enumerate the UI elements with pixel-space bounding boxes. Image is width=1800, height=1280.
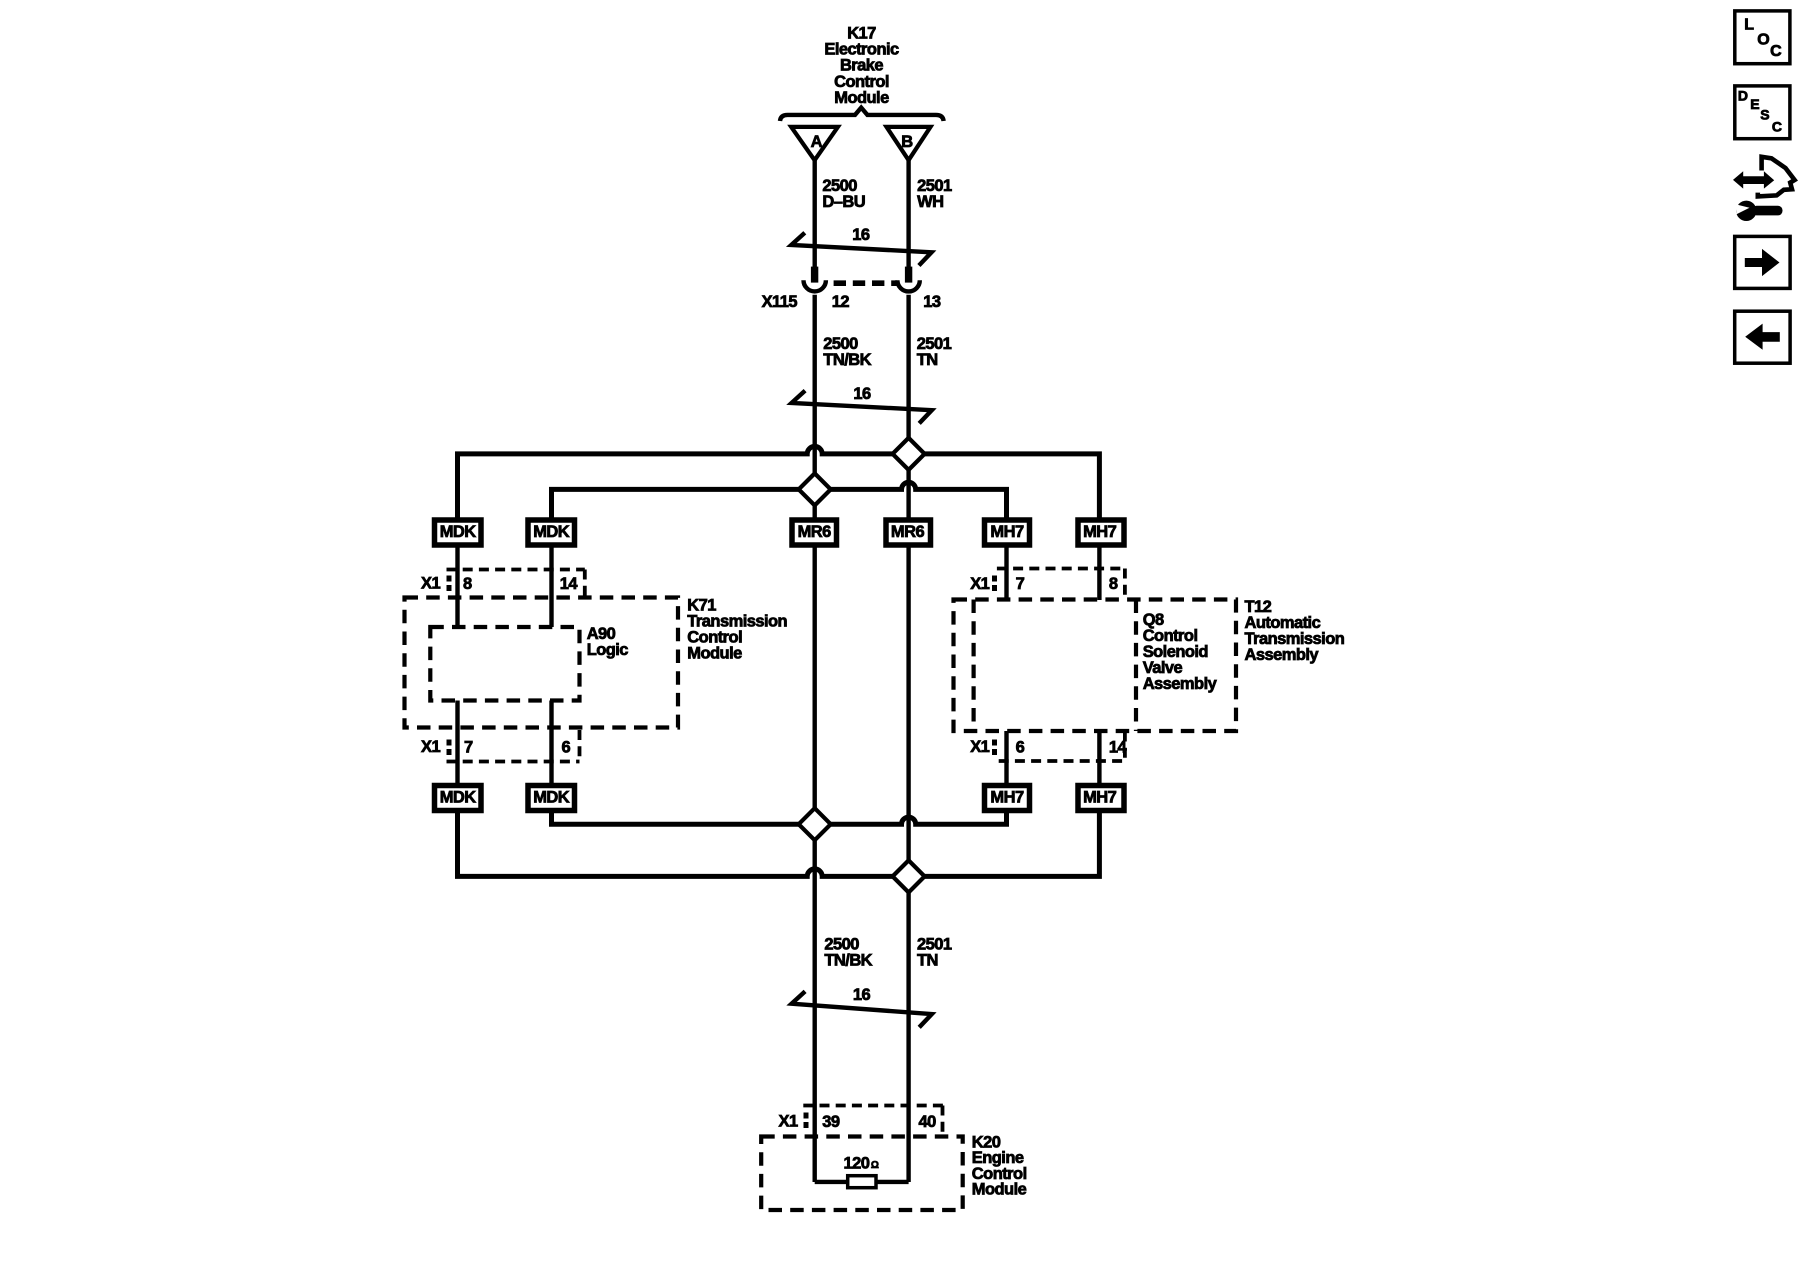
wire Q8 to pin 6 MH7 — [1004, 731, 1008, 783]
svg-text:120: 120 — [844, 1154, 870, 1172]
svg-text:E: E — [1750, 96, 1759, 112]
svg-text:MDK: MDK — [440, 788, 477, 806]
splice pack MDK (bottom left) — [435, 786, 482, 811]
label X1 pin 6 pin 14 (T12 bottom) — [970, 738, 1127, 757]
svg-text:Module: Module — [687, 644, 742, 662]
svg-text:X1: X1 — [421, 738, 440, 756]
outer bottom bus wire (2501 branch) with hop over wire 2500 — [458, 811, 1100, 876]
svg-text:A: A — [811, 133, 823, 151]
module box T12 Automatic Transmission Assembly (dashed) — [954, 600, 1237, 732]
svg-text:TN/BK: TN/BK — [824, 951, 872, 969]
splice pack MDK (top left) — [435, 520, 482, 545]
svg-text:O: O — [1757, 31, 1769, 48]
label X1 pin 39 pin 40 (K20) — [779, 1112, 937, 1131]
resistor 120 ohm — [844, 1154, 879, 1187]
inner bottom bus wire (2500 branch) with hop over wire 2501 — [552, 811, 1007, 824]
svg-text:6: 6 — [1016, 739, 1025, 757]
label wire 2500 TN/BK (lower) — [824, 935, 872, 969]
brace for K17 module — [780, 108, 944, 121]
label wire 2500 TN/BK (upper) — [823, 335, 871, 369]
connector X1 strip (K71 top) — [447, 570, 585, 598]
svg-text:8: 8 — [463, 575, 472, 593]
svg-text:Assembly: Assembly — [1245, 646, 1320, 664]
twisted pair symbol 16 (lower) — [792, 986, 932, 1028]
svg-text:TN/BK: TN/BK — [823, 351, 871, 369]
icon back arrow box — [1735, 311, 1790, 363]
wire pin 8 MH7 into Q8 — [1097, 545, 1101, 600]
connector X1 strip (T12 top) — [995, 569, 1125, 600]
icon forward arrow box — [1735, 236, 1790, 288]
svg-text:Logic: Logic — [587, 641, 629, 659]
svg-text:WH: WH — [917, 193, 943, 211]
svg-text:D–BU: D–BU — [822, 193, 865, 211]
svg-text:Module: Module — [834, 89, 889, 107]
label X1 pin 7 pin 6 (K71 bottom) — [421, 738, 571, 757]
svg-text:X1: X1 — [970, 575, 989, 593]
label wire 2500 D-BU — [822, 177, 865, 211]
svg-text:40: 40 — [919, 1113, 937, 1131]
svg-text:7: 7 — [1016, 575, 1025, 593]
svg-text:X115: X115 — [762, 293, 798, 311]
svg-text:14: 14 — [1109, 739, 1128, 757]
svg-text:MR6: MR6 — [798, 523, 832, 541]
icon wiring arrows and wrench — [1733, 157, 1795, 221]
wire 2500 from pin A to X115 — [813, 158, 817, 268]
connector triangle B — [887, 127, 931, 160]
svg-text:12: 12 — [832, 293, 850, 311]
svg-text:C: C — [1770, 43, 1782, 60]
svg-text:X1: X1 — [970, 738, 989, 756]
connector X115 body dashed line — [834, 280, 897, 286]
label wire 2501 WH — [917, 177, 952, 211]
wire Q8 to pin 14 MH7 — [1097, 731, 1101, 783]
svg-text:MH7: MH7 — [990, 523, 1024, 541]
icon DESC box — [1735, 86, 1790, 139]
icon LOC box — [1735, 11, 1790, 64]
label A90 Logic — [587, 625, 629, 659]
junction diamond on wire 2500 at inner bottom bus — [799, 808, 831, 840]
connector triangle A — [791, 127, 838, 160]
junction diamond on wire 2501 at top bus — [893, 438, 925, 470]
twisted pair symbol 16 (upper) — [791, 226, 931, 266]
label wire 2501 TN (upper) — [917, 335, 952, 369]
svg-text:7: 7 — [464, 739, 473, 757]
junction diamond on wire 2500 at second bus — [799, 473, 831, 505]
label wire 2501 TN (lower) — [917, 935, 952, 969]
svg-text:39: 39 — [822, 1113, 840, 1131]
module box K71 Transmission Control Module (dashed) — [405, 598, 679, 728]
junction diamond on wire 2501 at outer bottom bus — [893, 860, 925, 892]
connector X115 pin 13 terminal — [897, 267, 919, 292]
wire 2501 from pin B to X115 — [906, 158, 910, 268]
component box Q8 Control Solenoid Valve Assembly (dashed verticals) — [974, 600, 1136, 732]
label Q8 Control Solenoid Valve Assembly — [1143, 611, 1218, 693]
in-line connector MH7 (bottom right of T12) — [1078, 786, 1124, 811]
svg-text:13: 13 — [923, 293, 941, 311]
label X115 and pins 12 13 — [762, 293, 941, 311]
wire from MDK pin 14 into A90 — [549, 545, 553, 627]
svg-text:L: L — [1744, 17, 1754, 34]
in-line connector MR6 on wire 2501 — [886, 520, 931, 545]
svg-text:MDK: MDK — [440, 523, 477, 541]
in-line connector MH7 (top left of T12) — [985, 520, 1030, 545]
second bus wire (2500 branch) with hop over wire 2501 — [552, 482, 1007, 519]
svg-text:B: B — [901, 133, 913, 151]
svg-text:14: 14 — [560, 575, 579, 593]
svg-text:X1: X1 — [421, 574, 440, 592]
svg-text:Ω: Ω — [871, 1160, 879, 1171]
wire from A90 to pin 7 MDK — [455, 701, 459, 784]
splice pack MDK (bottom second) — [528, 786, 575, 811]
svg-text:Module: Module — [972, 1181, 1027, 1199]
svg-text:TN: TN — [917, 951, 938, 969]
svg-text:TN: TN — [917, 351, 938, 369]
splice pack MDK (top second) — [528, 520, 575, 545]
svg-text:16: 16 — [852, 226, 870, 244]
wire from MDK pin 8 into A90 — [455, 545, 459, 627]
label T12 Automatic Transmission Assembly — [1245, 598, 1345, 664]
svg-text:8: 8 — [1109, 575, 1118, 593]
label X1 pin 7 pin 8 (T12 top) — [970, 575, 1118, 593]
svg-text:16: 16 — [853, 986, 871, 1004]
connector X115 pin 12 terminal — [804, 267, 826, 292]
top bus wire (2501 branch) with hop over wire 2500 — [458, 446, 1100, 519]
svg-text:D: D — [1738, 88, 1748, 104]
label X1 pin 8 pin 14 (K71 top) — [421, 574, 578, 592]
svg-text:S: S — [1760, 106, 1769, 122]
wire from A90 to pin 6 MDK — [549, 701, 553, 784]
label K71 Transmission Control Module — [687, 596, 787, 662]
svg-text:MR6: MR6 — [891, 523, 925, 541]
module box K20 Engine Control Module (dashed) — [761, 1137, 963, 1211]
svg-text:MH7: MH7 — [990, 788, 1024, 806]
label K20 Engine Control Module — [972, 1133, 1027, 1198]
svg-text:MDK: MDK — [533, 523, 570, 541]
wire between pins 39 and 40 through resistor — [815, 1180, 909, 1184]
wire 2501 TN main vertical — [906, 295, 910, 1182]
logic box A90 (dashed) — [430, 627, 579, 701]
module label K17 Electronic Brake Control Module — [824, 24, 899, 107]
svg-text:C: C — [1772, 119, 1782, 135]
in-line connector MH7 (top right of T12) — [1078, 520, 1124, 545]
twisted pair symbol 16 (middle) — [792, 385, 932, 424]
in-line connector MR6 on wire 2500 — [792, 520, 837, 545]
connector X1 strip (K71 bottom) — [447, 730, 580, 762]
svg-text:6: 6 — [562, 739, 571, 757]
svg-text:MH7: MH7 — [1083, 523, 1117, 541]
svg-text:X1: X1 — [779, 1112, 798, 1130]
wire pin 7 MH7 into Q8 — [1004, 545, 1008, 600]
in-line connector MH7 (bottom left of T12) — [985, 786, 1030, 811]
svg-text:Assembly: Assembly — [1143, 675, 1218, 693]
connector X1 strip (K20) — [803, 1106, 944, 1136]
connector X1 strip (T12 bottom) — [995, 732, 1125, 762]
svg-text:MH7: MH7 — [1083, 788, 1117, 806]
wire 2500 TN/BK main vertical — [813, 295, 817, 1182]
svg-text:MDK: MDK — [533, 788, 570, 806]
svg-text:16: 16 — [853, 385, 871, 403]
